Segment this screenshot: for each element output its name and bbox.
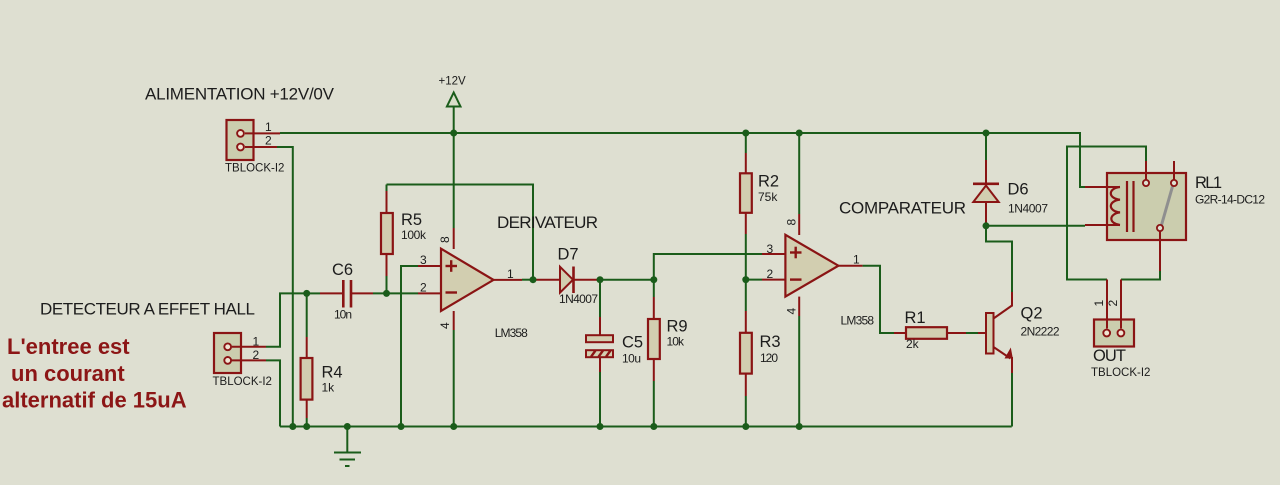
svg-text:8: 8 [785, 219, 799, 226]
svg-text:TBLOCK-I2: TBLOCK-I2 [1091, 367, 1150, 379]
svg-text:10n: 10n [334, 308, 352, 322]
svg-text:2: 2 [420, 280, 427, 294]
svg-text:COMPARATEUR: COMPARATEUR [839, 199, 966, 218]
svg-text:8: 8 [438, 236, 452, 243]
svg-text:RL1: RL1 [1195, 174, 1222, 192]
pin 4 [798, 297, 800, 316]
coil pins [1085, 186, 1120, 188]
wire detector pin2 down to ground rail [266, 360, 280, 426]
svg-text:2: 2 [253, 348, 260, 362]
wire R2/R3 node to U2 pin2 [746, 279, 762, 281]
diode D6 [973, 133, 1048, 226]
svg-text:2N2222: 2N2222 [1021, 325, 1060, 339]
svg-text:TBLOCK-I2: TBLOCK-I2 [213, 376, 272, 388]
svg-text:2: 2 [767, 267, 774, 281]
wire relay NO contact to OUT pin1 [1067, 147, 1146, 280]
resistor R4 [301, 293, 343, 426]
svg-text:LM358: LM358 [495, 326, 528, 340]
svg-text:LM358: LM358 [841, 314, 875, 328]
svg-text:R2: R2 [758, 173, 779, 191]
wire U1 pin3 to ground [401, 266, 418, 427]
wire U1 pin4 to ground rail [453, 330, 455, 427]
svg-text:D7: D7 [558, 246, 579, 264]
svg-text:DERIVATEUR: DERIVATEUR [497, 213, 598, 232]
svg-text:1N4007: 1N4007 [559, 292, 598, 306]
wire +12V top rail from ALIM pin1 to relay coil [280, 133, 1085, 187]
svg-text:TBLOCK-I2: TBLOCK-I2 [225, 162, 284, 174]
resistor R1 [894, 309, 986, 351]
svg-text:1: 1 [1092, 300, 1106, 307]
svg-text:3: 3 [767, 242, 774, 256]
svg-text:ALIMENTATION +12V/0V: ALIMENTATION +12V/0V [145, 85, 335, 104]
capacitor C6 [320, 261, 373, 322]
svg-text:1k: 1k [322, 381, 336, 395]
wire detector pin1 up to C6 node [266, 293, 307, 346]
collector [994, 306, 1013, 319]
relay RL1 [1085, 161, 1265, 271]
svg-text:Q2: Q2 [1021, 305, 1043, 323]
pin 1 output [838, 265, 862, 267]
svg-text:120: 120 [760, 351, 778, 365]
svg-text:100k: 100k [401, 228, 427, 242]
connector J ALIMENTATION TBLOCK-I2 [225, 120, 284, 174]
svg-text:+12V: +12V [439, 76, 467, 88]
svg-text:75k: 75k [758, 190, 778, 204]
svg-text:1: 1 [507, 267, 514, 281]
pin 3 [762, 253, 785, 255]
svg-text:1: 1 [265, 120, 272, 134]
svg-text:R1: R1 [905, 309, 926, 327]
annotation red text [2, 334, 187, 413]
svg-text:2k: 2k [906, 337, 920, 351]
svg-text:DETECTEUR A EFFET HALL: DETECTEUR A EFFET HALL [40, 300, 255, 319]
pin 8 [798, 214, 800, 235]
pin 2 [418, 292, 441, 294]
connector OUT TBLOCK-I2 [1091, 280, 1150, 380]
wire feedback U1 output to R5 top [387, 185, 534, 280]
pin 3 [418, 265, 441, 267]
resistor R5 [381, 185, 427, 294]
wire U1 pin8 to +12V rail [453, 133, 455, 228]
core bars [1126, 181, 1128, 232]
svg-text:alternatif de 15uA: alternatif de 15uA [2, 388, 187, 413]
wire U2 pin8 to rail [798, 133, 800, 214]
wire Q2 collector to D6 node [986, 226, 1012, 292]
svg-text:un courant: un courant [11, 361, 125, 386]
svg-text:G2R-14-DC12: G2R-14-DC12 [1195, 193, 1265, 207]
pin 1 output [494, 279, 523, 281]
capacitor C5 electrolytic [586, 280, 643, 427]
wire C6 right to R5 node and pin2 [373, 292, 418, 294]
svg-text:OUT: OUT [1093, 347, 1126, 365]
svg-text:D6: D6 [1008, 181, 1029, 199]
op-amp U1 LM358 [418, 228, 528, 340]
svg-text:R4: R4 [322, 364, 343, 382]
svg-text:R3: R3 [760, 333, 781, 351]
svg-text:C5: C5 [622, 334, 643, 352]
resistor R3 [740, 280, 781, 427]
svg-text:1N4007: 1N4007 [1008, 202, 1048, 216]
resistor R9 [648, 280, 688, 427]
ground rail [280, 426, 1012, 428]
svg-text:L'entree est: L'entree est [7, 334, 130, 359]
svg-text:3: 3 [420, 253, 427, 267]
svg-text:4: 4 [438, 322, 452, 329]
pin 8 [453, 228, 455, 249]
wire D6 node to relay coil [986, 225, 1085, 227]
svg-text:4: 4 [785, 308, 799, 315]
wire C6 left node [307, 292, 320, 294]
svg-text:1: 1 [853, 253, 860, 267]
op-amp U2 LM358 comparator [762, 214, 874, 328]
svg-text:C6: C6 [332, 261, 353, 279]
connector DETECTEUR TBLOCK-I2 [213, 333, 272, 388]
svg-text:2: 2 [265, 134, 272, 148]
switch arm [1162, 187, 1173, 226]
pin stubs [1145, 161, 1147, 180]
svg-text:10k: 10k [667, 335, 686, 349]
ground symbol [334, 427, 361, 467]
pin 4 [453, 311, 455, 330]
wire U1 output node [522, 279, 533, 281]
svg-text:R9: R9 [667, 318, 688, 336]
wire D7 cathode node to R9 node [598, 279, 654, 281]
svg-text:10u: 10u [622, 352, 641, 366]
emitter [994, 347, 1011, 359]
wire Q2 emitter to ground rail [1011, 373, 1013, 427]
svg-text:R5: R5 [401, 211, 422, 229]
contacts [1143, 180, 1149, 186]
svg-text:2: 2 [1106, 300, 1120, 307]
pin 2 [762, 279, 785, 281]
wire R9 node jog to U2 pin3 [654, 254, 762, 280]
wire relay common to OUT pin2 [1121, 271, 1160, 280]
svg-text:1: 1 [253, 335, 260, 349]
coil arcs [1111, 187, 1120, 225]
wire ALIM pin2 down to ground rail [277, 147, 293, 427]
wire U2 output to R1 [863, 266, 894, 333]
diode D7 [533, 246, 598, 307]
wire U2 pin4 to ground rail [798, 316, 800, 427]
resistor R2 [740, 133, 779, 280]
transistor Q2 2N2222 [986, 292, 1060, 373]
power symbol +12V [439, 76, 467, 134]
